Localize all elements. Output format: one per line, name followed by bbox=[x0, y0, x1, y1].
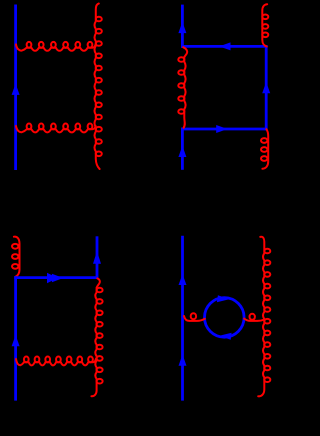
gluon G9 (diagram 3, vertical external gluon line) bbox=[91, 278, 99, 396]
gluon G12 (diagram 4, vertical external gluon line) bbox=[258, 237, 264, 397]
fermion arrow on q2b (left) bbox=[219, 42, 230, 50]
gluon G10 (diagram 4, left stub from quark line to loop) bbox=[184, 316, 205, 321]
fermion arrow on q3c (up) bbox=[93, 251, 101, 264]
quark loop (diagram 4, blue circle) bbox=[205, 298, 245, 338]
fermion arrow on quark loop top (clockwise, pointing right) bbox=[217, 295, 229, 302]
quark line q4 (diagram 4, vertical) bbox=[181, 236, 184, 401]
fermion arrow on q2a (up) bbox=[178, 22, 186, 33]
gluon G8 (diagram 3, horizontal gluon from quark to gluon line) bbox=[16, 359, 96, 366]
fermion arrow on q2e (up) bbox=[178, 146, 186, 157]
quark line q2e (diagram 2, incoming bottom-left) bbox=[181, 128, 184, 170]
gluon G3 (diagram 1, vertical external gluon line) bbox=[95, 4, 100, 170]
fermion arrow on q2c (up) bbox=[262, 82, 270, 93]
gluon G4 (diagram 2, internal vertical gluon, loops left) bbox=[183, 47, 187, 128]
gluon G2 (diagram 1, lower horizontal exchange) bbox=[16, 126, 96, 132]
quark line q2a (diagram 2, outgoing top-left) bbox=[181, 5, 184, 48]
fermion double arrow on q3b (right) bbox=[47, 273, 58, 284]
gluon G11 (diagram 4, right stub from loop to gluon line) bbox=[244, 319, 264, 321]
fermion arrow on q1 (pointing up) bbox=[12, 84, 20, 95]
quark line q3c (diagram 3, outgoing top-right) bbox=[96, 236, 99, 279]
fermion arrow on q2d (right) bbox=[216, 125, 227, 133]
gluon G6 (diagram 2, external gluon bottom-right) bbox=[262, 129, 268, 169]
quark line q3b (diagram 3, horizontal) bbox=[14, 276, 98, 279]
quark line q1 (diagram 1, vertical, incoming bottom to outgoing top) bbox=[14, 5, 17, 171]
gluon G5 (diagram 2, external gluon top-right) bbox=[262, 4, 267, 46]
fermion arrow on q3a (up) bbox=[12, 335, 20, 346]
quark line q2b (diagram 2, top horizontal, arrow left) bbox=[181, 45, 268, 48]
quark line q3a (diagram 3, left vertical) bbox=[14, 276, 17, 400]
fermion arrow on quark loop bottom (clockwise, pointing left) bbox=[219, 333, 231, 340]
gluon G7 (diagram 3, incoming external gluon top-left) bbox=[14, 237, 20, 277]
fermion arrow on q4 lower (up) bbox=[179, 355, 187, 366]
quark line q2d (diagram 2, bottom horizontal, arrow right) bbox=[181, 128, 268, 131]
quark line q2c (diagram 2, right vertical) bbox=[265, 45, 268, 130]
fermion arrow on q4 upper (up) bbox=[179, 274, 187, 285]
gluon G1 (diagram 1, upper horizontal exchange) bbox=[16, 44, 96, 51]
